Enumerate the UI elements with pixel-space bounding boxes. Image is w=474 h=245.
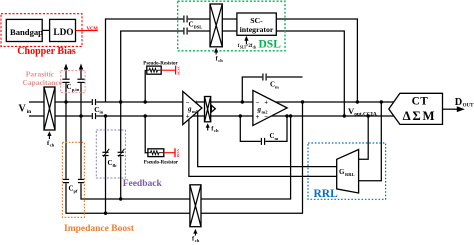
svg-text:−: − (186, 100, 190, 107)
svg-text:ch: ch (214, 128, 219, 133)
svg-text:+: + (264, 100, 268, 107)
svg-text:+: + (195, 100, 199, 107)
svg-text:Pseudo-Resistor: Pseudo-Resistor (143, 62, 178, 67)
svg-text:m: m (275, 85, 279, 90)
svg-text:ch: ch (253, 45, 257, 49)
svg-text:+: + (256, 114, 260, 121)
svg-text:out,CCIA: out,CCIA (354, 111, 377, 117)
svg-text:Feedback: Feedback (123, 179, 163, 189)
svg-text:ch: ch (50, 143, 55, 148)
svg-text:DSL: DSL (194, 25, 203, 30)
svg-text:Capacitance: Capacitance (23, 78, 63, 87)
svg-text:Chopper Bias: Chopper Bias (17, 46, 76, 57)
svg-text:−: − (195, 114, 199, 121)
svg-text:pf: pf (74, 189, 79, 194)
svg-text:RRL: RRL (314, 188, 339, 200)
svg-text:OUT: OUT (463, 104, 474, 109)
svg-text:DSL: DSL (259, 38, 282, 50)
svg-text:p,in: p,in (72, 87, 80, 92)
svg-text:Impedance Boost: Impedance Boost (64, 224, 135, 234)
svg-text:−: − (256, 100, 260, 107)
svg-text:ΔΣM: ΔΣM (403, 109, 437, 123)
svg-text:in: in (27, 109, 32, 115)
svg-text:fb: fb (113, 163, 117, 168)
svg-text:Pseudo-Resistor: Pseudo-Resistor (144, 161, 179, 166)
svg-text:VCM: VCM (176, 149, 180, 158)
svg-text:VCM: VCM (177, 67, 181, 76)
svg-text:V: V (19, 104, 27, 115)
svg-text:RRL: RRL (345, 172, 355, 177)
svg-text:in: in (100, 109, 104, 114)
svg-text:CT: CT (412, 95, 429, 107)
svg-text:C: C (67, 83, 72, 91)
svg-text:ch: ch (218, 58, 223, 63)
svg-text:+: + (186, 114, 190, 121)
svg-text:D: D (455, 97, 462, 108)
svg-text:integrator: integrator (240, 25, 274, 34)
svg-text:ch: ch (195, 238, 200, 243)
svg-text:SC-: SC- (250, 16, 263, 25)
svg-text:Bandgap: Bandgap (10, 27, 43, 37)
svg-text:−: − (264, 114, 268, 121)
svg-text:LDO: LDO (53, 28, 73, 38)
svg-text:VCM: VCM (87, 27, 99, 32)
svg-text:m: m (275, 136, 279, 141)
